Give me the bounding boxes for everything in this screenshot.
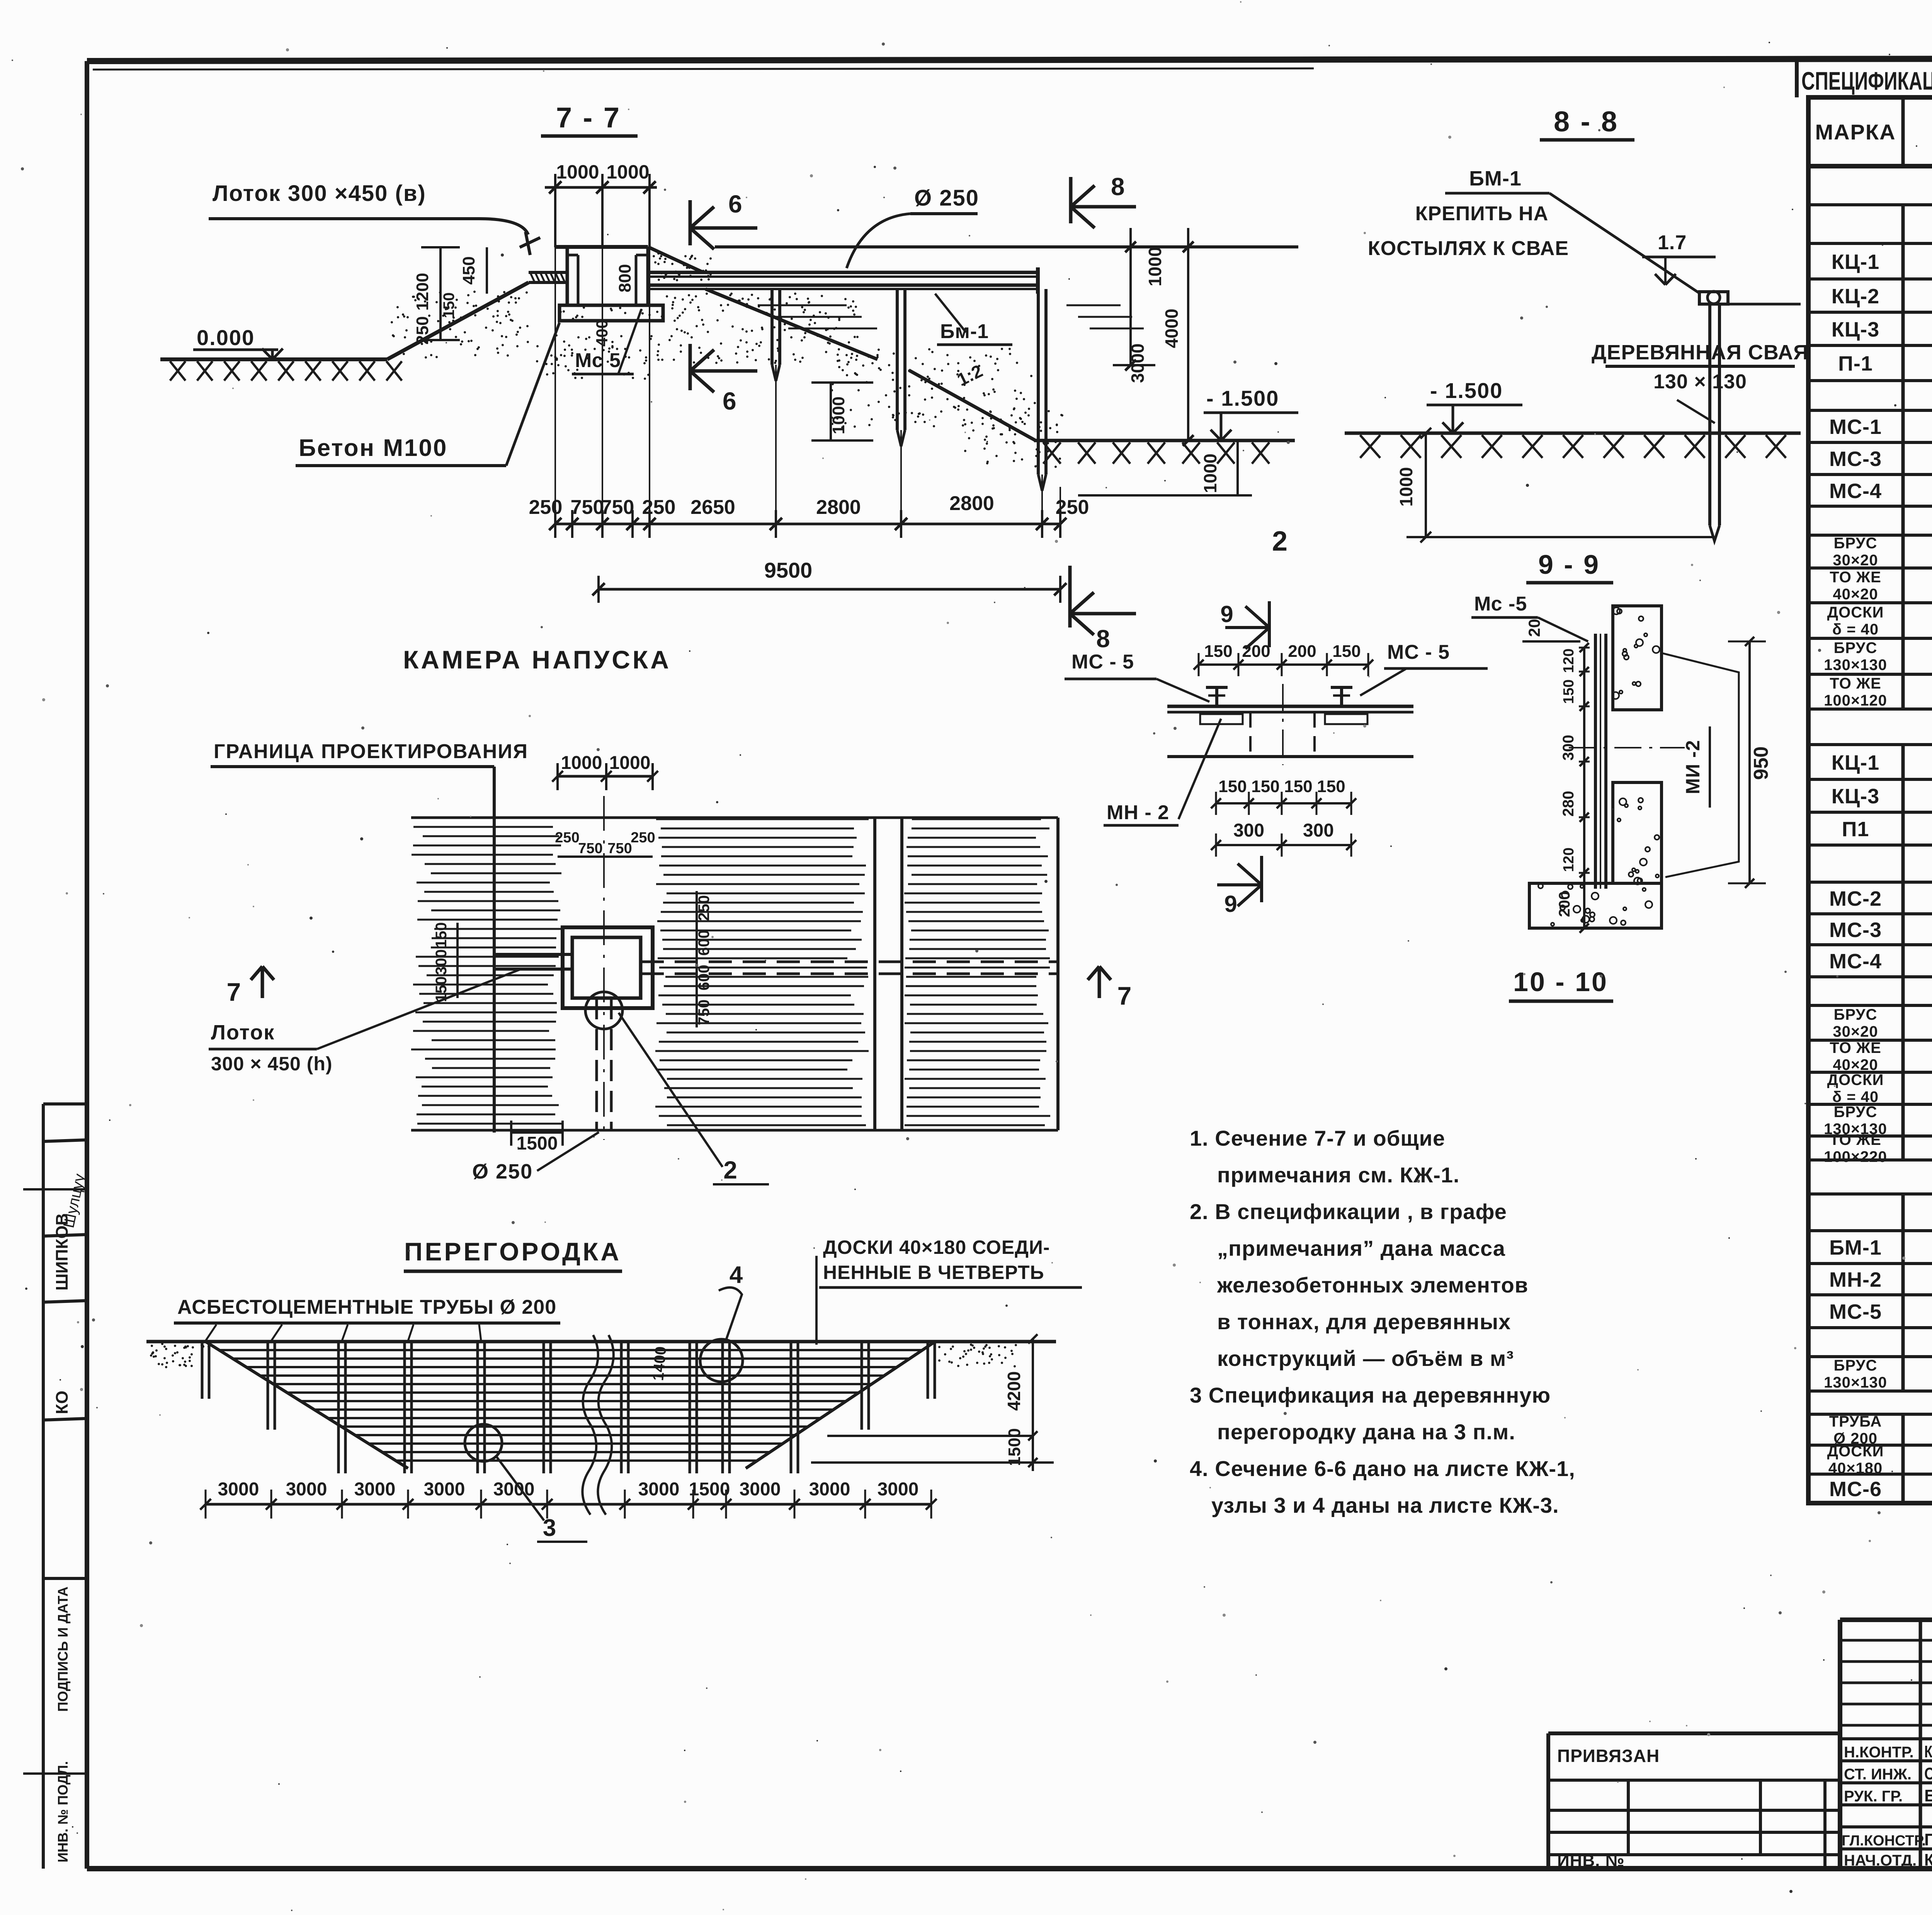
svg-text:300: 300: [1303, 820, 1334, 841]
svg-text:ДОСКИ: ДОСКИ: [1827, 604, 1884, 621]
svg-text:МС-3: МС-3: [1829, 918, 1882, 942]
svg-text:НЕННЫЕ В ЧЕТВЕРТЬ: НЕННЫЕ В ЧЕТВЕРТЬ: [823, 1262, 1044, 1283]
svg-text:7: 7: [1117, 981, 1132, 1010]
svg-text:СПЕЦИФИКАЦИЯ ЭЛЕМЕНТОВ К МАРКИ: СПЕЦИФИКАЦИЯ ЭЛЕМЕНТОВ К МАРКИРОВОЧНЫМ С…: [1801, 66, 1932, 95]
table section: перегородка: [1827, 1389, 1932, 1502]
svg-text:ГЛ.КОНСТР.: ГЛ.КОНСТР.: [1842, 1833, 1926, 1849]
svg-text:- 1.500: - 1.500: [1206, 386, 1279, 410]
svg-text:узлы 3 и 4 даны на листе К: узлы 3 и 4 даны на листе КЖ-3.: [1211, 1493, 1559, 1517]
svg-text:6: 6: [728, 190, 742, 218]
svg-text:150: 150: [1561, 679, 1577, 704]
svg-text:ТРУБА: ТРУБА: [1829, 1413, 1882, 1430]
svg-text:40×180: 40×180: [1828, 1460, 1883, 1477]
svg-text:примечания см. КЖ-1.: примечания см. КЖ-1.: [1217, 1163, 1460, 1187]
svg-text:МС-4: МС-4: [1829, 950, 1882, 973]
svg-text:1000: 1000: [606, 161, 649, 183]
svg-text:железобетонных элементов: железобетонных элементов: [1217, 1273, 1528, 1297]
svg-text:1500: 1500: [1005, 1428, 1024, 1466]
section 2 detail title: [1272, 526, 1287, 557]
svg-text:конструкций — объём в м³: конструкций — объём в м³: [1217, 1346, 1514, 1371]
svg-text:9: 9: [1220, 601, 1233, 627]
svg-text:3000: 3000: [218, 1479, 259, 1500]
table section: камера перепуска: [1824, 714, 1932, 1165]
svg-text:3000: 3000: [424, 1479, 465, 1500]
section 9-9 drawing: [1471, 593, 1772, 933]
svg-text:3000: 3000: [809, 1479, 850, 1500]
svg-text:200: 200: [1556, 891, 1573, 917]
svg-text:30×20: 30×20: [1833, 552, 1878, 569]
svg-text:4200: 4200: [1004, 1371, 1024, 1411]
svg-text:280: 280: [1560, 791, 1577, 817]
svg-text:МС - 5: МС - 5: [1387, 641, 1450, 663]
svg-text:БМ-1: БМ-1: [1469, 167, 1522, 190]
svg-text:МС-5: МС-5: [1829, 1300, 1882, 1323]
svg-text:в тоннах, для деревянных: в тоннах, для деревянных: [1217, 1310, 1511, 1334]
svg-text:1000: 1000: [1200, 454, 1220, 493]
svg-text:СТ. ИНЖ.: СТ. ИНЖ.: [1844, 1766, 1912, 1783]
svg-text:МИ -2: МИ -2: [1682, 740, 1704, 794]
svg-text:150: 150: [440, 293, 457, 318]
svg-text:10 - 10: 10 - 10: [1513, 967, 1608, 997]
svg-text:ПЕРЕГОРОДКА: ПЕРЕГОРОДКА: [404, 1237, 621, 1266]
svg-text:Мс -5: Мс -5: [1474, 593, 1527, 615]
svg-text:ГРАНИЦА ПРОЕКТИРОВАНИЯ: ГРАНИЦА ПРОЕКТИРОВАНИЯ: [214, 740, 528, 763]
section 7-7 drawing: [160, 161, 1298, 653]
svg-text:2. В спецификации , в графе: 2. В спецификации , в графе: [1190, 1199, 1507, 1224]
svg-text:БРУС: БРУС: [1834, 1357, 1878, 1374]
svg-text:1000: 1000: [609, 753, 651, 773]
svg-text:1000: 1000: [556, 161, 599, 183]
svg-text:КОСТЫЛЯХ К СВАЕ: КОСТЫЛЯХ К СВАЕ: [1368, 237, 1569, 260]
svg-text:3000: 3000: [638, 1479, 680, 1500]
svg-text:120: 120: [1561, 847, 1577, 872]
svg-text:3: 3: [543, 1515, 556, 1541]
svg-text:120: 120: [1561, 648, 1577, 673]
notes text block: [1190, 1126, 1575, 1517]
svg-text:перегородку дана на 3 п.м.: перегородку дана на 3 п.м.: [1217, 1420, 1515, 1444]
svg-text:250: 250: [555, 830, 579, 846]
камера напуска title: [403, 645, 671, 674]
svg-text:1500: 1500: [689, 1479, 730, 1500]
svg-text:Лоток 300 ×450 (в): Лоток 300 ×450 (в): [213, 181, 426, 206]
svg-text:150: 150: [1204, 642, 1232, 661]
svg-text:200: 200: [1242, 642, 1270, 661]
svg-text:40×20: 40×20: [1833, 586, 1878, 603]
svg-text:250: 250: [696, 895, 713, 921]
svg-text:750: 750: [571, 496, 604, 519]
svg-text:1. Сечение 7-7 и общие: 1. Сечение 7-7 и общие: [1190, 1126, 1445, 1150]
svg-text:300: 300: [433, 949, 450, 975]
привязан box: [1548, 1733, 1840, 1870]
svg-text:9: 9: [1224, 891, 1237, 917]
svg-text:ИНВ. №: ИНВ. №: [1557, 1851, 1625, 1870]
перегородка drawing: [146, 1236, 1082, 1542]
svg-text:ТО ЖЕ: ТО ЖЕ: [1830, 1131, 1881, 1148]
svg-text:Мс 5: Мс 5: [575, 349, 621, 372]
svg-text:МАРКА: МАРКА: [1815, 120, 1896, 144]
svg-text:100×120: 100×120: [1824, 692, 1887, 709]
specification table heading: [1797, 59, 1932, 97]
svg-text:6: 6: [723, 387, 736, 415]
svg-text:8: 8: [1111, 173, 1125, 201]
svg-text:МС-1: МС-1: [1829, 415, 1882, 439]
svg-text:3000: 3000: [493, 1479, 535, 1500]
svg-text:3 Спецификация на деревянну: 3 Спецификация на деревянную: [1190, 1383, 1551, 1407]
svg-text:750: 750: [578, 840, 602, 857]
svg-text:7: 7: [227, 978, 241, 1006]
svg-text:2: 2: [723, 1156, 737, 1184]
svg-text:МН-2: МН-2: [1829, 1268, 1882, 1291]
svg-text:„примечания” дана масса: „примечания” дана масса: [1217, 1236, 1505, 1260]
svg-text:750: 750: [601, 496, 634, 519]
svg-text:Ø 250: Ø 250: [472, 1160, 533, 1183]
svg-text:δ = 40: δ = 40: [1832, 621, 1879, 638]
svg-text:300: 300: [1233, 820, 1264, 841]
svg-text:1200: 1200: [413, 273, 432, 311]
svg-text:КАМЕРА НАПУСКА: КАМЕРА НАПУСКА: [403, 645, 671, 674]
svg-text:КЦ-3: КЦ-3: [1832, 785, 1879, 808]
svg-text:НАЧ.ОТД.: НАЧ.ОТД.: [1844, 1852, 1917, 1869]
table section: водоперепускной колодец: [1824, 172, 1932, 709]
svg-text:3000: 3000: [1128, 344, 1148, 383]
svg-text:20: 20: [1525, 619, 1543, 637]
section 8-8 title: [1540, 105, 1634, 140]
left margin stamp column: [23, 1104, 88, 1869]
section 8-8 drawing: [1345, 167, 1809, 543]
svg-text:2: 2: [1272, 526, 1287, 557]
svg-text:1.7: 1.7: [1658, 231, 1687, 254]
svg-text:2800: 2800: [949, 492, 994, 515]
svg-text:БРУС: БРУС: [1834, 1006, 1878, 1023]
svg-text:150: 150: [1284, 777, 1312, 796]
svg-text:150: 150: [433, 922, 450, 948]
svg-text:1000: 1000: [561, 753, 602, 773]
svg-text:δ = 40: δ = 40: [1832, 1088, 1879, 1105]
svg-text:П-1: П-1: [1838, 352, 1873, 375]
svg-text:Лоток: Лоток: [211, 1021, 275, 1044]
svg-text:Бетон М100: Бетон М100: [299, 435, 447, 461]
svg-text:ДОСКИ: ДОСКИ: [1827, 1443, 1884, 1460]
svg-text:1000: 1000: [1145, 247, 1165, 286]
svg-text:МС-6: МС-6: [1829, 1478, 1882, 1501]
svg-text:1500: 1500: [517, 1133, 558, 1154]
svg-text:100×220: 100×220: [1824, 1148, 1887, 1165]
svg-text:130×130: 130×130: [1824, 656, 1887, 673]
svg-text:МН - 2: МН - 2: [1107, 801, 1169, 824]
svg-text:КЦ-3: КЦ-3: [1832, 318, 1879, 341]
svg-text:ДЕРЕВЯННАЯ СВАЯ: ДЕРЕВЯННАЯ СВАЯ: [1592, 341, 1809, 364]
svg-text:БРУС: БРУС: [1834, 639, 1878, 656]
svg-text:КЦ-1: КЦ-1: [1832, 751, 1879, 774]
svg-text:300: 300: [1560, 735, 1577, 761]
svg-text:ПРОНИН: ПРОНИН: [1924, 1830, 1932, 1849]
title block texts: [1842, 1632, 1932, 1897]
svg-text:БРУС: БРУС: [1834, 535, 1878, 552]
svg-text:200: 200: [1288, 642, 1316, 661]
svg-text:450: 450: [459, 256, 478, 284]
перегородка title: [404, 1237, 622, 1271]
svg-text:1400: 1400: [650, 1346, 670, 1381]
svg-text:250: 250: [642, 496, 676, 519]
svg-text:ТО ЖЕ: ТО ЖЕ: [1830, 569, 1881, 586]
section 7-7 title: [541, 102, 638, 136]
svg-text:ДОСКИ 40×180 СОЕДИ-: ДОСКИ 40×180 СОЕДИ-: [823, 1236, 1050, 1258]
svg-text:9 - 9: 9 - 9: [1538, 549, 1600, 580]
svg-text:КЦ-2: КЦ-2: [1832, 285, 1879, 308]
svg-text:0.000: 0.000: [197, 325, 255, 350]
svg-text:МС-4: МС-4: [1829, 480, 1882, 503]
svg-text:950: 950: [1750, 747, 1772, 780]
svg-text:3000: 3000: [286, 1479, 327, 1500]
svg-text:800: 800: [616, 264, 634, 292]
section 2 detail: [1065, 601, 1488, 917]
svg-text:КО: КО: [53, 1391, 71, 1414]
svg-text:ПРИВЯЗАН: ПРИВЯЗАН: [1557, 1746, 1660, 1766]
svg-text:1000: 1000: [1396, 467, 1416, 507]
svg-text:7 - 7: 7 - 7: [556, 102, 621, 134]
table section: камера напуска с лотком: [1824, 1164, 1932, 1391]
svg-text:750: 750: [607, 840, 632, 857]
specification table header row: [1815, 110, 1932, 154]
svg-text:Н.КОНТР.: Н.КОНТР.: [1844, 1744, 1914, 1761]
svg-text:130 × 130: 130 × 130: [1653, 371, 1747, 393]
specification table grid: [1806, 97, 1932, 1503]
svg-text:150: 150: [1218, 777, 1247, 796]
svg-text:КЦ-1: КЦ-1: [1832, 250, 1879, 274]
svg-text:3000: 3000: [740, 1479, 781, 1500]
svg-text:РУК. ГР.: РУК. ГР.: [1844, 1788, 1903, 1805]
svg-text:ДОСКИ: ДОСКИ: [1827, 1071, 1884, 1088]
svg-text:600: 600: [696, 930, 713, 956]
svg-text:8 - 8: 8 - 8: [1554, 105, 1619, 138]
svg-text:300 × 450 (h): 300 × 450 (h): [211, 1053, 333, 1075]
svg-text:250: 250: [631, 830, 655, 846]
svg-text:2800: 2800: [816, 496, 861, 519]
section 9-9 title: [1526, 549, 1613, 583]
svg-text:40×20: 40×20: [1833, 1056, 1878, 1073]
svg-text:АСБЕСТОЦЕМЕНТНЫЕ ТРУБЫ Ø 200: АСБЕСТОЦЕМЕНТНЫЕ ТРУБЫ Ø 200: [177, 1296, 556, 1318]
section 10-10 title: [1509, 967, 1613, 1001]
svg-text:4: 4: [730, 1262, 743, 1288]
svg-text:4000: 4000: [1162, 309, 1182, 348]
svg-text:БМ-1: БМ-1: [1829, 1236, 1882, 1259]
svg-text:3000: 3000: [878, 1479, 919, 1500]
svg-text:БЕЛОВА: БЕЛОВА: [1924, 1786, 1932, 1805]
svg-text:750: 750: [696, 1000, 713, 1026]
svg-text:30×20: 30×20: [1833, 1023, 1878, 1040]
svg-text:150: 150: [1332, 642, 1361, 661]
svg-text:МС - 5: МС - 5: [1071, 651, 1134, 673]
svg-text:КРАСАВИН: КРАСАВИН: [1924, 1850, 1932, 1869]
svg-text:9500: 9500: [764, 558, 813, 582]
svg-text:КНЯГИНИЧЕВ: КНЯГИНИЧЕВ: [1924, 1742, 1932, 1761]
svg-text:4. Сечение 6-6 дано на лис: 4. Сечение 6-6 дано на листе КЖ-1,: [1190, 1456, 1575, 1481]
svg-text:150: 150: [1251, 777, 1279, 796]
title block grid: [1840, 1620, 1932, 1869]
svg-text:150: 150: [1317, 777, 1345, 796]
svg-text:2650: 2650: [690, 496, 735, 519]
svg-text:600: 600: [696, 965, 713, 991]
svg-text:МС-2: МС-2: [1829, 887, 1882, 910]
svg-text:3000: 3000: [354, 1479, 396, 1500]
svg-text:ТО ЖЕ: ТО ЖЕ: [1830, 1039, 1881, 1056]
svg-text:250: 250: [529, 496, 563, 519]
svg-text:БРУС: БРУС: [1834, 1104, 1878, 1121]
svg-text:П1: П1: [1842, 818, 1869, 841]
svg-text:КРЕПИТЬ НА: КРЕПИТЬ НА: [1415, 202, 1549, 225]
svg-text:МС-3: МС-3: [1829, 447, 1882, 471]
svg-text:ТО ЖЕ: ТО ЖЕ: [1830, 675, 1881, 692]
svg-text:- 1.500: - 1.500: [1430, 378, 1503, 403]
svg-text:130×130: 130×130: [1824, 1374, 1887, 1391]
svg-text:ПОДПИСЬ И ДАТА: ПОДПИСЬ И ДАТА: [55, 1587, 71, 1712]
план камеры напуска: [209, 740, 1131, 1184]
svg-text:САВИТСКИЙ: САВИТСКИЙ: [1924, 1764, 1932, 1783]
svg-text:1000: 1000: [829, 396, 848, 434]
svg-text:ИНВ. № ПОДЛ.: ИНВ. № ПОДЛ.: [55, 1761, 71, 1862]
svg-text:8: 8: [1096, 625, 1110, 653]
svg-text:Ø 250: Ø 250: [914, 185, 979, 211]
